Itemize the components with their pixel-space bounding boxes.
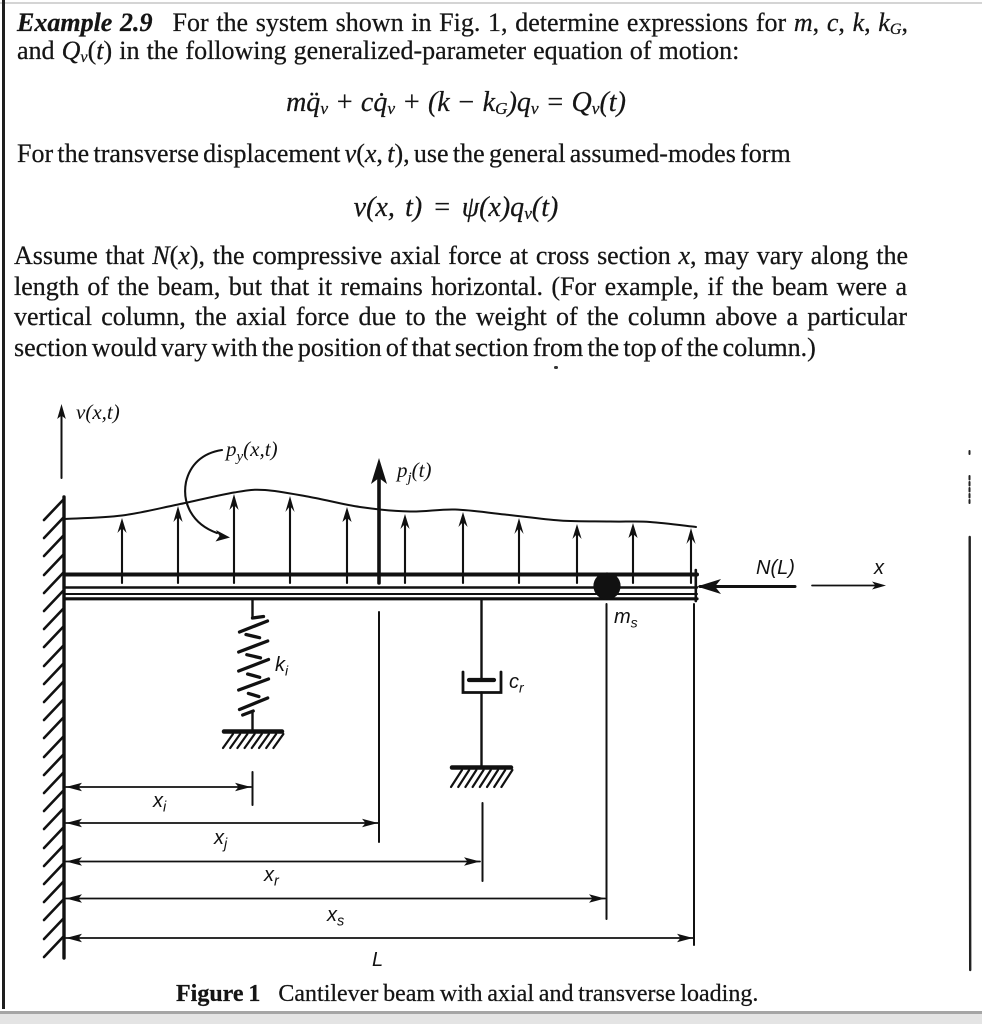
page bottom scan shadow: [0, 1011, 982, 1014]
spring k_i: [239, 600, 269, 730]
svg-text:v(x,t): v(x,t): [76, 400, 120, 424]
distributed load arrow at x=691: [686, 528, 695, 583]
figure caption: [176, 982, 758, 1007]
label p_y(x,t): [224, 437, 278, 465]
svg-text:xs: xs: [326, 904, 344, 930]
label v(x,t): [76, 400, 120, 424]
dimension x_r: [66, 857, 480, 889]
page left border: [2, 0, 5, 1009]
svg-text:cr: cr: [509, 671, 525, 696]
beam: [65, 570, 697, 601]
label c_r: [509, 671, 525, 696]
label x axis: [873, 557, 885, 579]
paragraph 1 line 1: [17, 10, 908, 39]
distributed load arrow at x=122: [117, 518, 126, 583]
dimension L: [66, 934, 693, 971]
svg-text:ms: ms: [614, 606, 638, 631]
extension line for x_r: [482, 803, 484, 881]
paragraph 1 line 2: [17, 38, 947, 67]
concentrated force arrow p_j(t): [371, 458, 387, 583]
label m_s: [614, 606, 638, 631]
svg-text:py(x,t): py(x,t): [224, 437, 278, 465]
x coordinate axis arrow: [812, 582, 886, 590]
damper c_r: [463, 600, 501, 766]
svg-text:x: x: [873, 557, 885, 579]
svg-text:N(L): N(L): [756, 557, 795, 579]
dimension x_s: [66, 894, 605, 929]
svg-text:L: L: [372, 949, 383, 971]
ground under damper: [451, 768, 512, 788]
svg-text:xr: xr: [263, 864, 280, 890]
distributed load arrow at x=633: [628, 523, 637, 583]
label N(L): [756, 557, 795, 579]
distributed load arrow at x=347: [342, 507, 351, 583]
dimension x_i: [66, 783, 251, 816]
equation 1: [0, 89, 912, 120]
fixed wall support: [44, 497, 64, 958]
distributed load arrow at x=234: [229, 494, 238, 583]
distributed load arrow at x=519: [514, 518, 523, 583]
leader arrow from p_y label: [185, 450, 230, 542]
distributed load arrow at x=290: [285, 496, 294, 583]
svg-text:ki: ki: [275, 654, 289, 679]
dimension x_j: [66, 819, 378, 853]
paragraph 3: [14, 243, 908, 268]
label p_j(t): [395, 458, 432, 486]
extension line for x_s: [606, 604, 608, 919]
stray ink dot: [554, 366, 558, 369]
distributed load envelope curve: [65, 490, 696, 527]
distributed load arrow at x=577: [572, 524, 581, 583]
extension line for x_j: [378, 612, 380, 842]
scan artifact right edge line: [969, 451, 972, 970]
ground under spring: [223, 732, 283, 749]
svg-text:xi: xi: [152, 790, 167, 816]
label k_i: [275, 654, 289, 679]
lumped mass m_s: [593, 572, 620, 599]
extension line for L: [693, 604, 695, 945]
extension line for x_i: [252, 772, 254, 805]
distributed load arrow at x=405: [400, 514, 409, 583]
paragraph 2: [17, 141, 947, 166]
distributed load arrow at x=178: [173, 506, 182, 583]
axial force arrow N(L): [697, 579, 795, 594]
svg-text:pj(t): pj(t): [395, 458, 432, 486]
page top faint edge: [0, 2, 982, 4]
v(x,t) axis arrow: [57, 404, 66, 478]
svg-text:xj: xj: [213, 827, 228, 853]
equation 2: [0, 194, 912, 225]
distributed load arrow at x=463: [458, 512, 467, 583]
